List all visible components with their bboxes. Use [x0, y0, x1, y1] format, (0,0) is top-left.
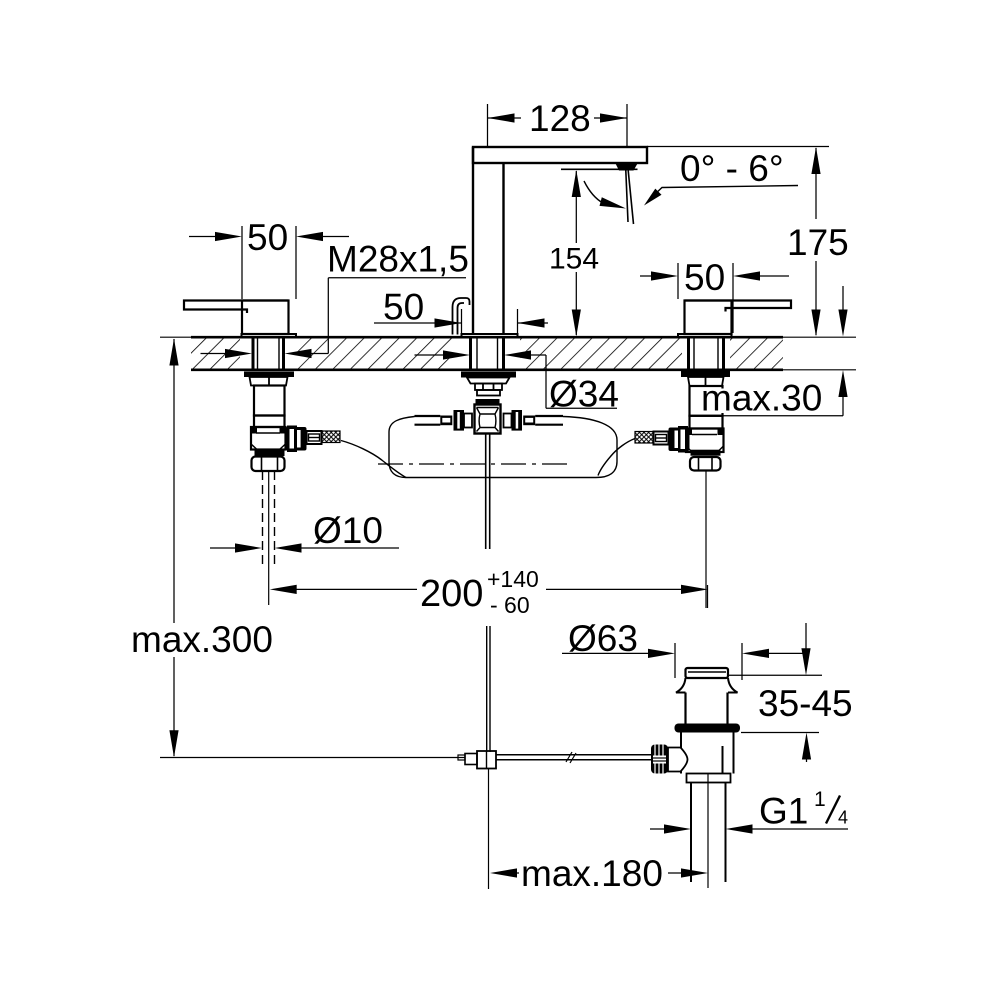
right fitting — [512, 410, 523, 431]
svg-text:50: 50 — [247, 217, 288, 258]
right port ridges — [286, 427, 307, 451]
dim 50 left handle — [189, 217, 349, 299]
shanks through deck — [253, 338, 284, 370]
aerator — [616, 164, 638, 171]
knurled knob — [651, 745, 668, 774]
left valve assembly — [244, 372, 340, 606]
left port — [668, 748, 688, 772]
neck — [477, 390, 500, 396]
left hose tube — [415, 415, 441, 417]
under-deck flange — [461, 372, 516, 378]
svg-text:4: 4 — [838, 808, 848, 828]
svg-text:Ø34: Ø34 — [549, 374, 619, 415]
left handle plate — [242, 334, 297, 338]
cylinder — [686, 693, 728, 724]
deck bottom line — [191, 368, 856, 371]
braid — [635, 432, 653, 444]
compression nut — [690, 457, 721, 471]
dim max.300 — [131, 339, 273, 758]
black band — [691, 450, 721, 456]
deck arrows center shank + O34 leader — [415, 350, 619, 414]
right hose tube — [535, 415, 563, 417]
svg-text:+140: +140 — [487, 566, 539, 592]
shank cylinder — [690, 386, 723, 416]
horizontal rod double line — [496, 754, 654, 756]
right valve assembly — [635, 371, 730, 608]
right handle body — [685, 301, 732, 335]
svg-text:G1: G1 — [759, 791, 808, 832]
valve body — [251, 427, 286, 450]
nut — [250, 377, 288, 386]
dim G1 1/4 — [650, 788, 848, 834]
line under aerator (154 reference) — [561, 168, 638, 170]
spout flange plate — [462, 334, 518, 338]
max.30 dim — [723, 286, 848, 416]
svg-text:175: 175 — [787, 222, 849, 263]
stream line 0deg — [626, 171, 628, 223]
compression nut — [252, 457, 285, 472]
dim O63 — [562, 618, 806, 680]
dim 154 — [549, 170, 599, 337]
dim 50 right handle — [640, 257, 789, 333]
dim max.180 — [490, 853, 708, 894]
centerline down — [705, 471, 707, 609]
dim 128 — [488, 98, 628, 146]
seal ring — [675, 724, 741, 733]
svg-text:0° - 6°: 0° - 6° — [680, 148, 784, 189]
clamp assembly — [458, 755, 465, 760]
spout column — [473, 147, 504, 335]
valve body — [686, 429, 724, 453]
bottom band — [687, 774, 731, 783]
horizontal thin rod line to the left — [160, 757, 465, 759]
vertical rod lower — [488, 769, 490, 890]
black band — [255, 450, 285, 457]
svg-text:Ø63: Ø63 — [568, 618, 638, 659]
deck top line — [160, 336, 856, 338]
collar — [307, 431, 322, 444]
vertical rod upper — [486, 626, 488, 752]
nut — [688, 377, 724, 386]
deck arrows left shank — [201, 349, 329, 358]
pop-up rod (bottom view) — [160, 626, 654, 889]
right handle plate — [678, 334, 732, 338]
svg-text:50: 50 — [383, 287, 424, 328]
dashed supply pipe — [262, 471, 264, 566]
spout top bar — [473, 147, 647, 163]
collar — [654, 432, 669, 445]
left port ridges — [669, 428, 690, 452]
locknut flange — [244, 372, 294, 378]
left fitting — [454, 410, 465, 431]
dim 50 spout base — [374, 287, 548, 334]
swivel arc with arrowhead — [584, 181, 603, 203]
svg-text:1: 1 — [814, 788, 826, 811]
rod below tee — [485, 434, 487, 550]
left handle lever — [184, 301, 289, 314]
M28x1,5 label — [327, 239, 469, 354]
dash-dot centerline — [378, 463, 572, 465]
right hose curve — [598, 439, 635, 476]
braid — [322, 431, 340, 443]
svg-text:154: 154 — [549, 243, 599, 276]
left handle body — [242, 301, 289, 335]
nut — [475, 384, 502, 391]
locknut flange — [681, 371, 730, 377]
svg-text:35-45: 35-45 — [758, 683, 853, 724]
svg-text:max.180: max.180 — [521, 853, 663, 894]
body — [681, 733, 734, 774]
svg-text:- 60: - 60 — [490, 592, 530, 618]
tee top black band — [476, 399, 500, 405]
max.30 text with white backing — [700, 378, 828, 419]
dim O10 — [210, 510, 399, 553]
trapezoid — [467, 378, 510, 384]
drain assembly — [651, 668, 740, 888]
pop-up hook rod behind spout — [453, 298, 470, 335]
deck hatching — [191, 338, 783, 369]
tee body — [475, 405, 501, 434]
svg-text:max.30: max.30 — [701, 378, 822, 419]
flare — [676, 678, 738, 693]
svg-text:max.300: max.300 — [131, 619, 273, 660]
hose loop — [389, 417, 617, 478]
svg-text:50: 50 — [684, 257, 725, 298]
dim 200 +140 -60 — [270, 566, 708, 618]
svg-text:200: 200 — [420, 573, 483, 615]
break marks — [566, 752, 576, 763]
svg-text:128: 128 — [529, 98, 591, 139]
svg-text:Ø10: Ø10 — [313, 510, 383, 551]
cap — [686, 668, 729, 678]
dim 35-45 — [728, 623, 853, 762]
tailpipe — [690, 783, 692, 883]
leader for 0-6 deg — [650, 186, 798, 200]
right handle lever — [685, 301, 792, 312]
svg-text:M28x1,5: M28x1,5 — [327, 239, 469, 280]
shank cylinder — [254, 386, 285, 416]
left hose curve — [341, 441, 406, 478]
center tee assembly — [415, 372, 564, 550]
stream line 6deg — [628, 171, 633, 225]
dim 175 — [647, 147, 849, 337]
